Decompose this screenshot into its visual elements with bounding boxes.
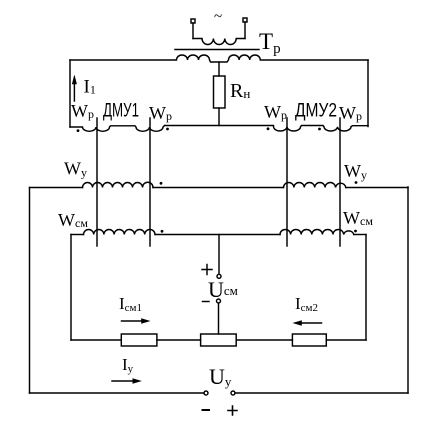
arrow Ism2 <box>296 322 322 324</box>
dot Wp DMU2 left <box>267 127 270 130</box>
label Rn <box>230 80 250 102</box>
label Wy left <box>64 159 87 180</box>
transformer Tp primary AC tilde <box>214 9 222 25</box>
terminal Uy right <box>231 391 235 395</box>
winding Wy DMU2 <box>284 183 346 188</box>
arrow I1 <box>73 83 75 101</box>
wire Wy row right lead <box>346 187 408 189</box>
wire bias rail seg1 <box>71 339 121 341</box>
wire Wy row middle <box>153 187 284 189</box>
arrow Ism1 <box>122 320 148 322</box>
winding Wp DMU2 <box>274 126 369 132</box>
winding Wsm DMU1 <box>84 229 155 234</box>
resistor bias left <box>121 334 157 346</box>
wire Rn bottom to Wp connector <box>218 108 220 126</box>
transformer Tp primary terminal right <box>243 18 247 22</box>
resistor bias right <box>292 334 326 346</box>
label Wsm right <box>343 208 373 228</box>
wire Wy row left lead <box>30 187 83 189</box>
wire Usm tap from Wsm row <box>218 235 220 275</box>
wire bias rail seg3 <box>236 339 292 341</box>
label DMU2 <box>295 101 337 122</box>
label Tp <box>259 29 281 57</box>
label Iy <box>122 355 134 375</box>
label Wsm left <box>58 210 88 230</box>
arrow Iy <box>112 380 138 382</box>
dot Wsm DMU1 <box>161 230 164 233</box>
wire bias rail seg2 <box>157 339 201 341</box>
wire bias rail seg4 <box>326 339 366 341</box>
wire top loop left vertical <box>69 60 71 127</box>
resistor Rn <box>214 76 226 108</box>
wire primary right lead <box>244 22 246 39</box>
core leg DMU1 left <box>96 118 98 246</box>
dot Wp DMU1 left <box>77 129 80 132</box>
label DMU1 <box>103 101 139 122</box>
label Wp 2 <box>149 103 172 123</box>
label minus Usm <box>203 301 210 303</box>
core leg DMU2 left <box>286 118 288 246</box>
label Wp 4 <box>339 103 362 123</box>
label Ism1 <box>119 294 142 314</box>
wire control loop left vertical <box>29 188 31 394</box>
winding Wy DMU1 <box>83 182 154 187</box>
wire bias loop right vertical <box>365 235 367 341</box>
wire Wsm row middle <box>155 234 280 236</box>
label I1 <box>84 77 96 98</box>
label Uy <box>209 364 232 389</box>
label plus Usm <box>202 265 212 275</box>
wire Usm minus to resistor <box>218 303 220 334</box>
resistor bias centre <box>201 334 237 346</box>
core leg DMU1 right <box>149 118 151 246</box>
wire Uy rail left <box>30 392 205 394</box>
label Usm <box>208 277 238 302</box>
label Ism2 <box>295 294 318 314</box>
wire centre tap to Rn <box>218 62 220 76</box>
wire Wsm row right lead <box>354 234 366 236</box>
wire Wsm row left lead <box>71 234 84 236</box>
dot Wy DMU2 <box>355 181 358 184</box>
svg-text:ДМУ1: ДМУ1 <box>103 101 139 122</box>
wire Uy rail right <box>235 392 408 394</box>
label minus Uy <box>203 409 210 411</box>
core leg DMU2 right <box>339 118 341 246</box>
dot Wp DMU2 mid <box>318 128 321 131</box>
transformer Tp primary terminal left <box>191 19 195 23</box>
transformer Tp primary winding <box>193 39 245 45</box>
label Wy right <box>344 161 367 182</box>
winding Wp DMU1 <box>70 126 165 132</box>
wire Wp connector DMU1 to DMU2 <box>165 125 274 127</box>
dot Wsm DMU2 <box>354 230 357 233</box>
wire top loop right vertical <box>367 60 369 127</box>
wire control loop right vertical <box>407 187 409 393</box>
wire primary left lead <box>192 23 194 39</box>
terminal Uy left <box>204 391 208 395</box>
dot Wp DMU1 right <box>166 128 169 131</box>
wire bias loop left vertical <box>70 235 72 341</box>
terminal Usm plus <box>217 274 221 278</box>
transformer Tp secondary winding (on top rail, centre tap) <box>70 55 368 62</box>
svg-text:ДМУ2: ДМУ2 <box>295 101 337 122</box>
label plus Uy <box>228 406 237 415</box>
svg-text:~: ~ <box>214 9 222 25</box>
winding Wsm DMU2 <box>280 229 354 234</box>
terminal Usm minus <box>217 299 221 303</box>
label Wp 1 <box>71 101 94 121</box>
dot Wy DMU1 <box>160 182 163 185</box>
label Wp 3 <box>264 102 287 122</box>
transformer Tp core <box>175 49 259 51</box>
